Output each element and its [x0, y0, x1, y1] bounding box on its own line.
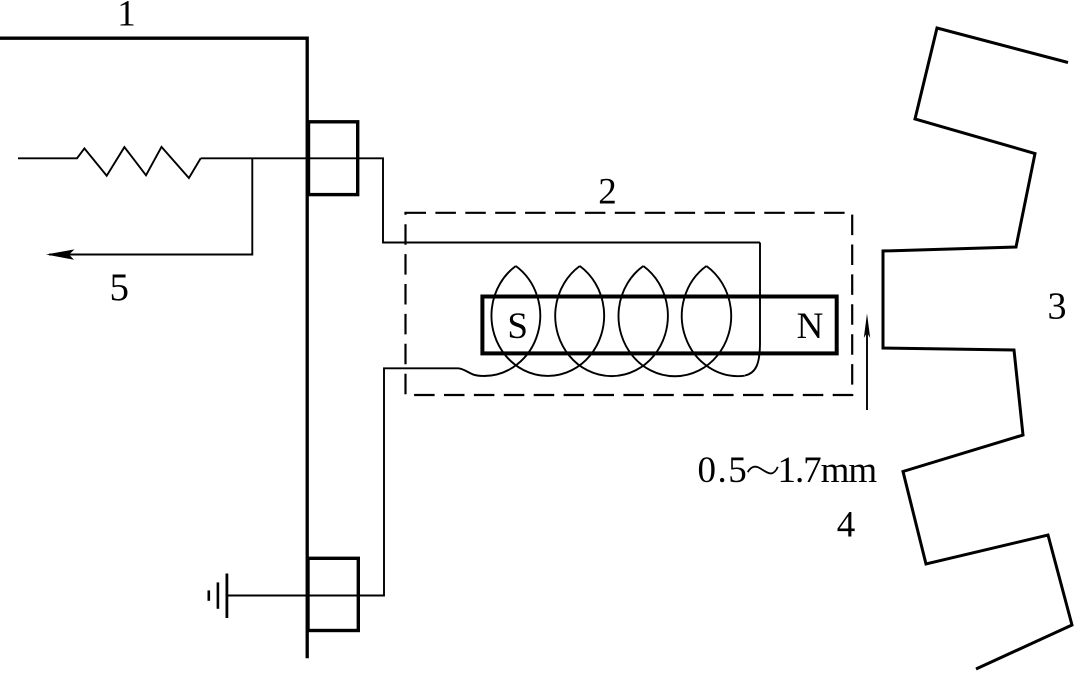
coil turn 3: [618, 266, 731, 376]
ground symbol: [225, 574, 228, 619]
wire: resistor output to coil top lead: [201, 158, 760, 242]
gear wheel (unit 3): [883, 28, 1072, 669]
wire: junction to output arrow: [49, 158, 252, 254]
svg-text:3: 3: [1048, 286, 1067, 328]
connector block lower: [308, 558, 358, 630]
coil lead-in (bottom left): [458, 266, 540, 376]
air-gap arrow shaft (4): [866, 331, 868, 410]
coil turn 2: [555, 266, 668, 376]
resistor R: [18, 147, 201, 178]
arrowhead: output signal arrow (5): [46, 249, 75, 259]
svg-text:4: 4: [837, 505, 856, 546]
svg-text:1.7mm: 1.7mm: [778, 450, 878, 491]
connector block upper: [309, 122, 358, 195]
magnet bar: [482, 297, 836, 354]
wire: coil return to ground: [227, 368, 458, 595]
coil turn 4 (to right lead): [682, 266, 745, 376]
coil right lead hook: [745, 243, 760, 376]
air-gap arrowhead: [864, 314, 870, 339]
tilde of air gap range: [748, 467, 778, 474]
svg-text:0.5: 0.5: [698, 450, 749, 491]
svg-text:N: N: [797, 306, 824, 347]
svg-text:2: 2: [598, 171, 617, 212]
svg-text:S: S: [507, 306, 528, 347]
wire: ECU box top line and vertical bus (unit 1): [0, 37, 307, 659]
svg-text:5: 5: [110, 266, 130, 309]
coil turn 1: [491, 266, 604, 376]
svg-text:1: 1: [117, 0, 136, 35]
dashed sensor enclosure (unit 2): [406, 213, 853, 395]
